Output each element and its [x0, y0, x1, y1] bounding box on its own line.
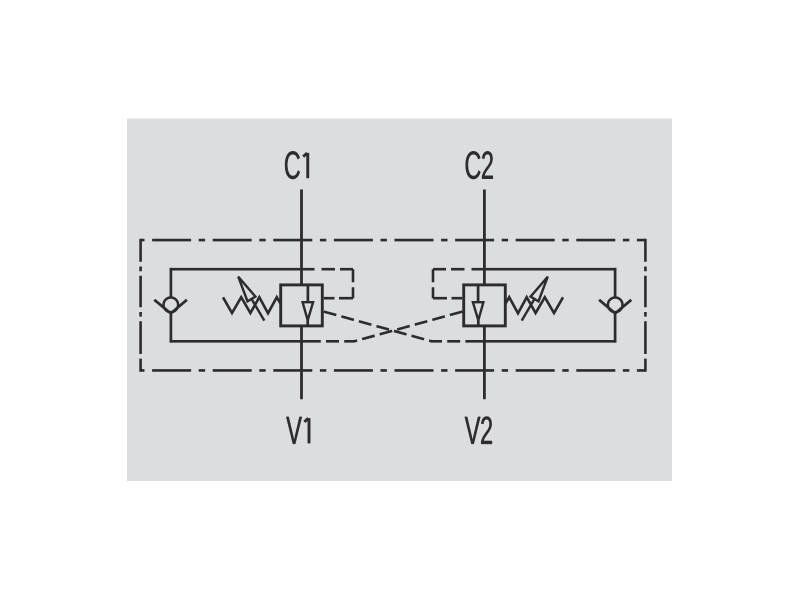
enclosure dash-dot border bottom edge — [141, 369, 646, 372]
left circuit loop top wire — [170, 268, 315, 271]
label C2 — [466, 151, 493, 179]
left circuit loop left wire lower — [170, 313, 173, 343]
right pilot box bottom dashed wire — [433, 297, 462, 300]
pilot line from right valve to V1 (dashed, crossing) — [315, 312, 463, 342]
right valve internal inlet stem — [477, 285, 480, 303]
port line V1 — [300, 326, 303, 399]
port line C2 — [483, 190, 486, 285]
right circuit loop bottom wire — [472, 340, 617, 343]
pilot line from left valve to V2 (dashed, crossing) — [324, 312, 472, 342]
right circuit loop right wire lower — [614, 313, 617, 343]
label V2 — [465, 416, 492, 443]
check valve CV2 ball — [608, 298, 623, 313]
left valve poppet arrow (hollow) — [303, 302, 314, 320]
left pilot box top dashed wire — [315, 268, 354, 271]
left spring — [223, 297, 281, 313]
counterbalance valve body left (square) — [281, 285, 323, 326]
right valve internal outlet stem — [477, 320, 480, 326]
right pilot box top dashed wire — [433, 268, 472, 271]
right circuit loop right wire upper — [614, 268, 617, 298]
check valve CV1 ball — [164, 298, 179, 313]
left valve internal outlet stem — [306, 320, 309, 326]
label V1 — [286, 417, 309, 444]
right circuit loop top wire — [472, 268, 617, 271]
port line V2 — [483, 326, 486, 399]
check valve CV1 seat — [154, 300, 187, 314]
left circuit loop left wire upper — [170, 268, 173, 298]
enclosure dash-dot border top edge — [141, 239, 646, 242]
right adjustment arrow shaft — [522, 299, 535, 321]
background panel — [127, 119, 672, 482]
left pilot box right dashed wire — [352, 269, 355, 298]
label C1 — [285, 151, 308, 179]
left adjustment arrow shaft — [252, 299, 265, 321]
left pilot box bottom dashed wire — [324, 297, 353, 300]
right spring — [505, 297, 563, 313]
right adjustment arrow head (hollow) — [531, 277, 548, 302]
left valve internal inlet stem — [307, 285, 310, 303]
right valve poppet arrow (hollow) — [473, 302, 484, 320]
port line C1 — [300, 190, 303, 285]
right pilot box left dashed wire — [432, 269, 435, 298]
check valve CV2 seat — [599, 300, 631, 314]
enclosure dash-dot border left edge — [139, 239, 142, 372]
left circuit loop bottom wire — [170, 340, 315, 343]
counterbalance valve body right (square) — [464, 285, 506, 326]
left adjustment arrow head (hollow) — [238, 277, 255, 302]
enclosure dash-dot border right edge — [644, 239, 647, 372]
